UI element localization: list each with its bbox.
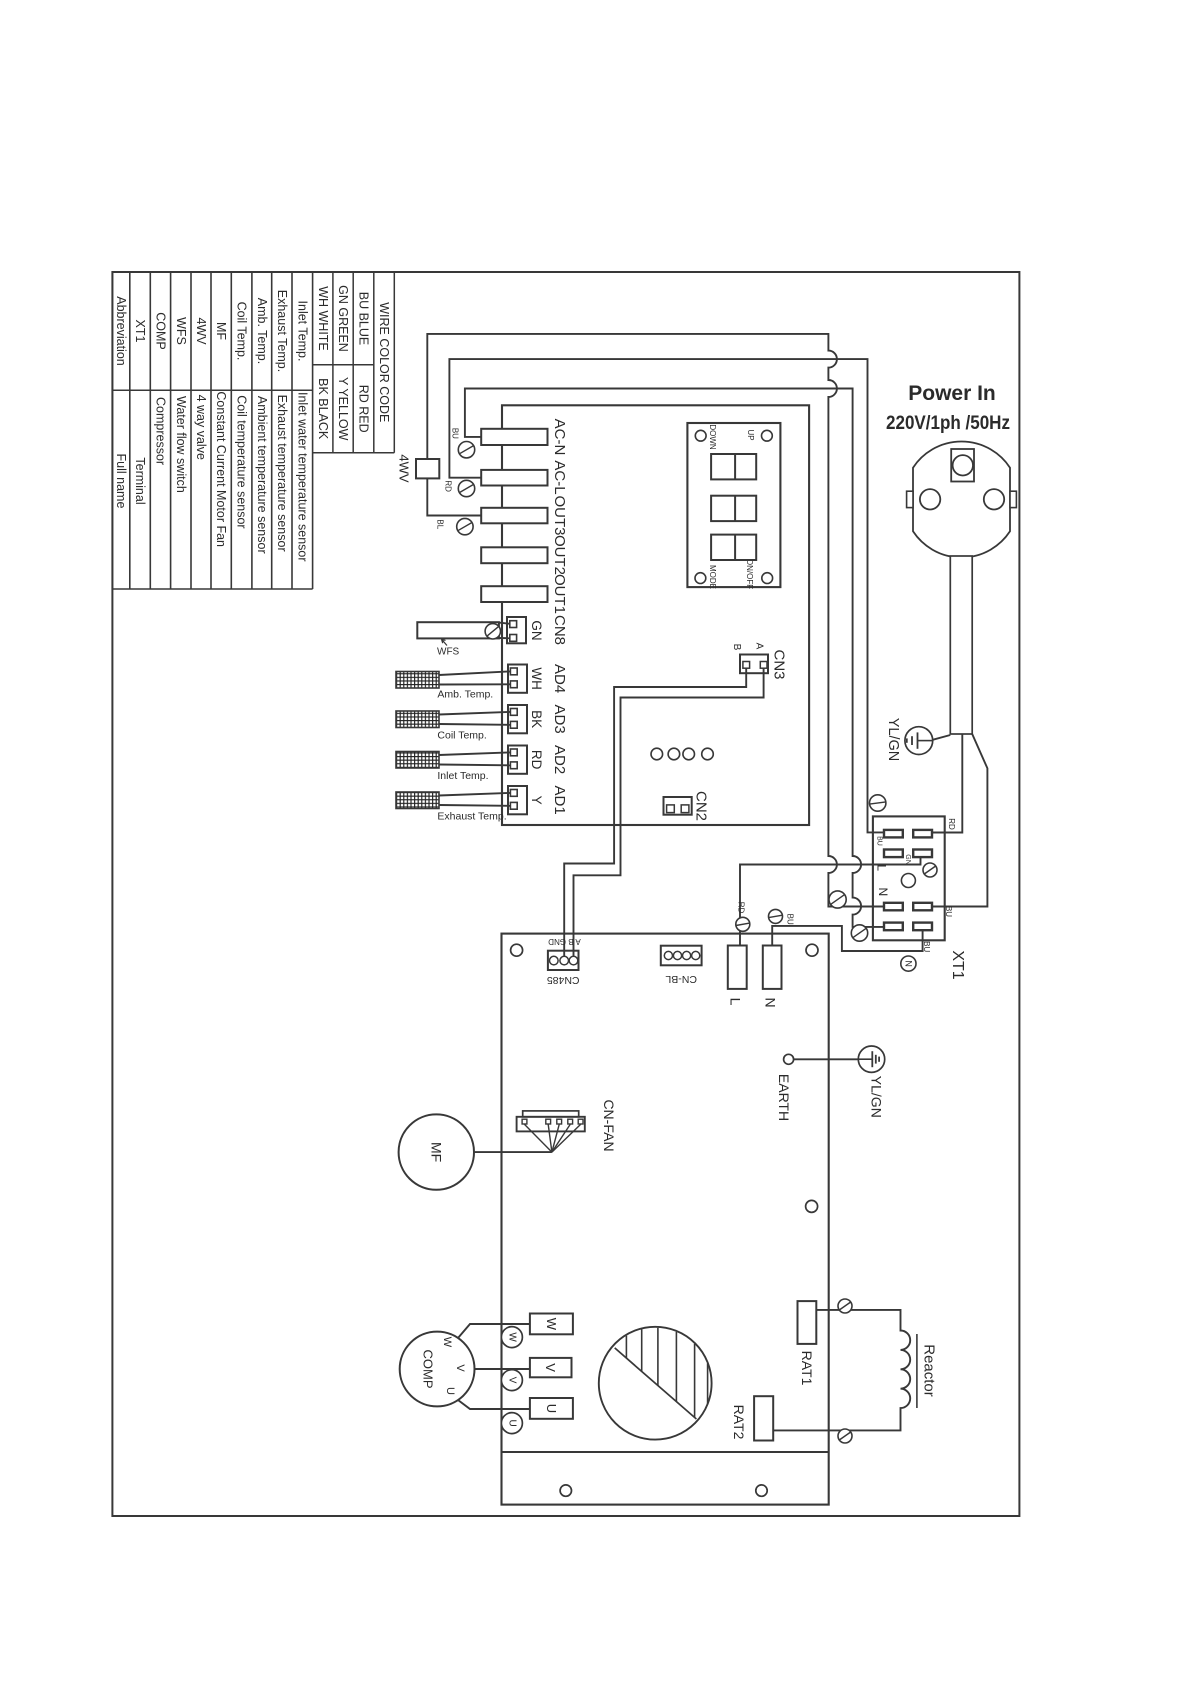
- CN-BL pin: [673, 951, 681, 959]
- svg-text:Y: Y: [529, 796, 544, 805]
- svg-text:CN8: CN8: [551, 615, 568, 645]
- svg-text:Abbreviation: Abbreviation: [114, 296, 128, 366]
- svg-text:A B GND: A B GND: [548, 937, 581, 946]
- plug pin left: [920, 489, 940, 509]
- earth ground symbol YL/GN right: [858, 1046, 884, 1072]
- svg-text:CN3: CN3: [771, 649, 788, 679]
- WFS pointer arrow: [442, 639, 448, 645]
- fan motor MF: [399, 1114, 474, 1189]
- svg-text:MF: MF: [214, 322, 228, 340]
- wire cord conductor to XT1 row1: [932, 734, 962, 833]
- svg-text:BU: BU: [876, 836, 883, 846]
- board mounting hole: [806, 944, 818, 956]
- connector AD2: [508, 746, 527, 774]
- svg-text:Constant Current Motor Fan: Constant Current Motor Fan: [214, 391, 228, 547]
- svg-text:B: B: [731, 644, 742, 651]
- terminal circle N1 on AC-N wire: [458, 442, 474, 458]
- connector AD3: [508, 705, 527, 733]
- svg-text:BL: BL: [435, 519, 444, 529]
- AD1 pin 2: [510, 802, 517, 809]
- sensor element Exhaust Temp.: [396, 792, 439, 809]
- wire CN3-B to CN485-B: [564, 668, 746, 956]
- panel mounting hole: [695, 573, 706, 584]
- svg-text:BK: BK: [529, 710, 544, 728]
- AD2 pin 2: [510, 762, 517, 769]
- svg-text:Coil Temp.: Coil Temp.: [437, 730, 486, 742]
- indicator hole: [702, 748, 714, 760]
- svg-text:GN: GN: [904, 854, 911, 865]
- svg-text:RD: RD: [444, 480, 453, 492]
- panel button: [711, 496, 756, 521]
- connector AC-L: [481, 470, 547, 486]
- svg-text:WH WHITE: WH WHITE: [316, 286, 330, 351]
- wire CN3-A to CN485-A: [574, 668, 764, 956]
- svg-text:MF: MF: [428, 1142, 444, 1162]
- sensor element Coil Temp.: [396, 711, 439, 728]
- connector CN3: [740, 655, 768, 674]
- terminal circle on OUT3 wire: [457, 518, 473, 534]
- terminal N: [763, 946, 782, 989]
- terminal circle on OUT3 wire at XT1: [829, 891, 846, 908]
- panel button: [711, 454, 756, 479]
- svg-text:RD: RD: [529, 750, 544, 770]
- wire color code table: [332, 272, 334, 453]
- wire N terminal to XT1 row4-right lug: [772, 926, 922, 951]
- svg-text:V: V: [506, 1377, 517, 1384]
- svg-text:XT1: XT1: [949, 950, 966, 979]
- connector AD1: [508, 786, 527, 814]
- connector OUT2: [481, 547, 547, 563]
- wire cord earth conductor: [933, 735, 951, 740]
- terminal circle L1 on AC-L wire: [458, 480, 474, 496]
- svg-text:V: V: [543, 1363, 558, 1372]
- svg-text:GN: GN: [529, 620, 544, 640]
- svg-text:BK BLACK: BK BLACK: [316, 378, 330, 440]
- svg-text:OUT1: OUT1: [551, 574, 568, 614]
- svg-text:AD4: AD4: [551, 664, 568, 693]
- resistor RAT1: [798, 1301, 817, 1344]
- svg-text:MODE: MODE: [708, 565, 717, 589]
- terminal circle N below XT1: [901, 956, 916, 971]
- board bottom strip line: [502, 1451, 829, 1453]
- svg-text:OUT2: OUT2: [551, 535, 568, 575]
- reactor label rule: [916, 1334, 918, 1408]
- svg-text:Exhaust temperature sensor: Exhaust temperature sensor: [275, 395, 289, 552]
- XT1 lug row1 left: [884, 830, 903, 838]
- CN-BL pin: [692, 951, 700, 959]
- compressor symbol circle with hatching: [599, 1327, 712, 1440]
- board mounting hole: [806, 1200, 818, 1212]
- svg-text:GN GREEN: GN GREEN: [336, 285, 350, 352]
- svg-text:CN2: CN2: [692, 791, 709, 821]
- connector OUT3: [481, 508, 547, 524]
- svg-text:Reactor: Reactor: [921, 1344, 938, 1397]
- svg-text:RD: RD: [737, 902, 746, 914]
- sensor element Inlet Temp.: [396, 752, 439, 769]
- EARTH pad: [784, 1054, 794, 1064]
- panel mounting hole: [695, 430, 706, 441]
- svg-text:YL/GN: YL/GN: [869, 1076, 885, 1118]
- connector CN485: [548, 951, 579, 970]
- panel mounting hole: [762, 430, 773, 441]
- svg-text:4WV: 4WV: [397, 454, 412, 483]
- wire WFS to CN8 pin1: [499, 623, 510, 624]
- svg-text:U: U: [506, 1419, 517, 1426]
- connector CN8: [507, 617, 526, 643]
- panel mounting hole: [762, 573, 773, 584]
- AD3 pin 1: [510, 709, 517, 716]
- sensor element Amb. Temp.: [396, 672, 439, 689]
- XT1 lug row3 left: [884, 903, 903, 911]
- AD4 pin 2: [510, 681, 517, 688]
- CN-FAN pins and fan-out wires: [522, 1119, 527, 1124]
- svg-text:U: U: [444, 1387, 456, 1395]
- earth symbol YL/GN at plug: [905, 727, 933, 755]
- wire WFS to CN8 pin2: [499, 637, 510, 639]
- connector AC-N: [481, 429, 547, 445]
- plug left tab: [907, 491, 913, 507]
- board mounting hole: [511, 944, 523, 956]
- CN2 pin 1: [667, 805, 675, 813]
- connector CN-FAN body: [517, 1117, 585, 1132]
- svg-text:W: W: [544, 1318, 559, 1331]
- CN-BL pin: [683, 951, 691, 959]
- svg-text:DOWN: DOWN: [708, 424, 717, 450]
- power plug body: [913, 442, 1010, 558]
- wire cord conductor to XT1 row3: [932, 734, 987, 907]
- svg-text:V: V: [454, 1364, 466, 1372]
- wire XT1 row2 to L terminal: [740, 857, 921, 945]
- svg-text:EARTH: EARTH: [776, 1074, 792, 1121]
- CN3 pin B: [743, 662, 750, 669]
- svg-text:Coil Temp.: Coil Temp.: [235, 302, 249, 361]
- wire MF to CN-FAN: [474, 1151, 552, 1153]
- CN-FAN latch: [523, 1111, 579, 1117]
- CN8 pin 1: [510, 621, 517, 628]
- svg-text:A: A: [754, 643, 765, 650]
- svg-text:RAT1: RAT1: [799, 1351, 815, 1386]
- svg-text:WFS: WFS: [437, 647, 460, 658]
- svg-text:CN-FAN: CN-FAN: [601, 1099, 617, 1151]
- XT1 lug row4 right: [913, 923, 932, 931]
- abbreviation table: [111, 272, 113, 589]
- plug earth-pin housing: [951, 449, 974, 482]
- connector CN2: [664, 797, 692, 815]
- wire RAT1 - reactor - RAT2: [773, 1310, 910, 1431]
- svg-text:Exhaust Temp.: Exhaust Temp.: [275, 290, 289, 372]
- wire Amb. Temp. to AD4 pin1: [439, 671, 510, 675]
- svg-text:BU BLUE: BU BLUE: [357, 292, 371, 346]
- svg-text:AD2: AD2: [551, 745, 568, 774]
- svg-text:UP: UP: [746, 429, 755, 440]
- CN-BL pin: [664, 951, 672, 959]
- CN3 pin A: [760, 662, 767, 669]
- terminal circle on reactor wire bottom: [838, 1429, 852, 1443]
- svg-text:AC-L: AC-L: [551, 460, 568, 494]
- AD4 pin 1: [510, 668, 517, 675]
- lower power board outline: [502, 934, 829, 1505]
- CN485 pin: [550, 956, 559, 965]
- svg-text:N: N: [903, 960, 913, 967]
- svg-text:Amb. Temp.: Amb. Temp.: [437, 689, 493, 701]
- CN485 pin: [569, 956, 578, 965]
- svg-text:Ambient temperature sensor: Ambient temperature sensor: [255, 396, 269, 554]
- svg-text:Power In: Power In: [908, 382, 996, 405]
- svg-text:WIRE COLOR CODE: WIRE COLOR CODE: [377, 302, 391, 422]
- svg-text:Terminal: Terminal: [133, 457, 147, 504]
- plug earth pin: [953, 455, 973, 475]
- svg-text:Compressor: Compressor: [153, 397, 167, 465]
- terminal L: [728, 946, 747, 989]
- XT1 lug row2 left: [884, 850, 903, 858]
- svg-text:OUT3: OUT3: [551, 495, 568, 535]
- panel button: [711, 535, 756, 560]
- wire Coil Temp. to AD3 pin2: [439, 723, 510, 726]
- svg-text:U: U: [544, 1404, 559, 1413]
- svg-text:N: N: [876, 888, 890, 897]
- board strip mounting hole: [756, 1485, 767, 1496]
- XT1 lug row1 right: [913, 830, 932, 838]
- plug pin right: [984, 489, 1004, 509]
- CN8 pin 2: [510, 635, 517, 642]
- power cord: [950, 556, 972, 734]
- svg-text:RD RED: RD RED: [357, 385, 371, 433]
- plug right tab: [1010, 491, 1016, 507]
- connector OUT1: [481, 586, 547, 602]
- svg-text:AD1: AD1: [551, 786, 568, 815]
- resistor RAT2: [754, 1396, 773, 1440]
- svg-text:YL/GN: YL/GN: [885, 718, 901, 762]
- svg-text:BU: BU: [944, 906, 953, 917]
- wire OUT3 to XT1 row3 (with crossover hops): [427, 334, 884, 907]
- svg-text:ON/OFF: ON/OFF: [745, 559, 754, 589]
- XT1 lug row2 right: [913, 850, 932, 858]
- terminal circle on L wire: [736, 917, 750, 931]
- svg-text:Exhaust Temp.: Exhaust Temp.: [437, 811, 506, 823]
- svg-text:L: L: [728, 998, 744, 1006]
- wire Exhaust Temp. to AD1 pin1: [439, 793, 510, 796]
- svg-text:WFS: WFS: [174, 317, 188, 345]
- svg-text:Water flow switch: Water flow switch: [174, 396, 188, 493]
- terminal circle V: [501, 1370, 522, 1391]
- svg-text:BU: BU: [786, 914, 795, 925]
- compressor motor COMP: [400, 1332, 475, 1407]
- wire Inlet Temp. to AD2 pin2: [439, 764, 510, 767]
- svg-text:220V/1ph /50Hz: 220V/1ph /50Hz: [886, 412, 1010, 434]
- terminal U: [530, 1398, 573, 1419]
- svg-text:N: N: [763, 997, 779, 1007]
- wire Amb. Temp. to AD4 pin2: [439, 683, 510, 685]
- svg-text:CN-BL: CN-BL: [665, 973, 697, 985]
- wire Coil Temp. to AD3 pin1: [439, 712, 510, 715]
- svg-text:RAT2: RAT2: [731, 1405, 747, 1440]
- svg-text:Inlet Temp.: Inlet Temp.: [295, 301, 309, 362]
- indicator hole: [651, 748, 663, 760]
- terminal circle on N wire: [769, 909, 783, 923]
- WFS terminal circle: [485, 624, 500, 639]
- svg-text:COMP: COMP: [153, 312, 167, 350]
- svg-text:W: W: [506, 1332, 517, 1342]
- AD3 pin 2: [510, 721, 517, 728]
- terminal W: [530, 1314, 573, 1335]
- display panel outline: [687, 423, 780, 587]
- svg-text:Y YELLOW: Y YELLOW: [336, 377, 350, 441]
- wire COMP U: [458, 1400, 530, 1409]
- terminal circle on reactor wire top: [838, 1299, 852, 1313]
- AD1 pin 1: [510, 790, 517, 797]
- svg-text:WH: WH: [529, 667, 544, 690]
- svg-text:Inlet Temp.: Inlet Temp.: [437, 770, 488, 782]
- svg-text:XT1: XT1: [133, 320, 147, 343]
- svg-text:AD3: AD3: [551, 705, 568, 734]
- water flow switch WFS body: [417, 622, 499, 638]
- wire AC-N to XT1 row4-left lug (with crossover hops): [465, 389, 884, 927]
- svg-text:4WV: 4WV: [194, 317, 208, 345]
- svg-text:CN485: CN485: [547, 974, 580, 986]
- terminal circle inside XT1: [923, 863, 937, 877]
- AD2 pin 1: [510, 749, 517, 756]
- XT1 lug row4 left: [884, 923, 903, 931]
- svg-text:Amb. Temp.: Amb. Temp.: [255, 298, 269, 364]
- CN485 pin: [560, 956, 569, 965]
- terminal V: [530, 1358, 572, 1377]
- terminal circle W: [501, 1327, 522, 1348]
- connector CN-BL: [661, 946, 702, 966]
- XT1 lug row3 right: [913, 903, 932, 911]
- terminal circle on N wire at XT1: [851, 925, 867, 941]
- connector AD4: [508, 665, 527, 693]
- XT1 screw hole: [901, 874, 915, 888]
- svg-text:Coil temperature sensor: Coil temperature sensor: [235, 395, 249, 528]
- terminal circle on AC-L wire at XT1: [870, 795, 886, 811]
- wire Exhaust Temp. to AD1 pin2: [439, 804, 510, 807]
- 4-way-valve coil 4WV: [416, 459, 439, 478]
- svg-text:Inlet water temperature sensor: Inlet water temperature sensor: [295, 392, 309, 562]
- indicator hole: [668, 748, 680, 760]
- terminal circle U: [501, 1413, 522, 1434]
- CN2 pin 2: [681, 805, 689, 813]
- wire EARTH to ground: [794, 1058, 859, 1060]
- wire Inlet Temp. to AD2 pin1: [439, 752, 510, 755]
- board strip mounting hole: [560, 1485, 571, 1496]
- drawing border frame: [112, 272, 1019, 1516]
- wire AC-L to XT1 row1-left lug: [449, 359, 884, 832]
- svg-text:4 way valve: 4 way valve: [194, 395, 208, 460]
- svg-text:Full name: Full name: [114, 454, 128, 509]
- svg-text:COMP: COMP: [421, 1350, 436, 1389]
- wire COMP W: [458, 1324, 530, 1338]
- terminal block XT1: [873, 816, 945, 940]
- svg-text:RD: RD: [947, 818, 956, 830]
- svg-text:BU: BU: [451, 428, 460, 439]
- svg-text:W: W: [441, 1337, 453, 1348]
- wire COMP V: [475, 1368, 530, 1370]
- indicator hole: [683, 748, 695, 760]
- upper control board outline: [502, 405, 809, 825]
- svg-text:AC-N: AC-N: [551, 419, 568, 456]
